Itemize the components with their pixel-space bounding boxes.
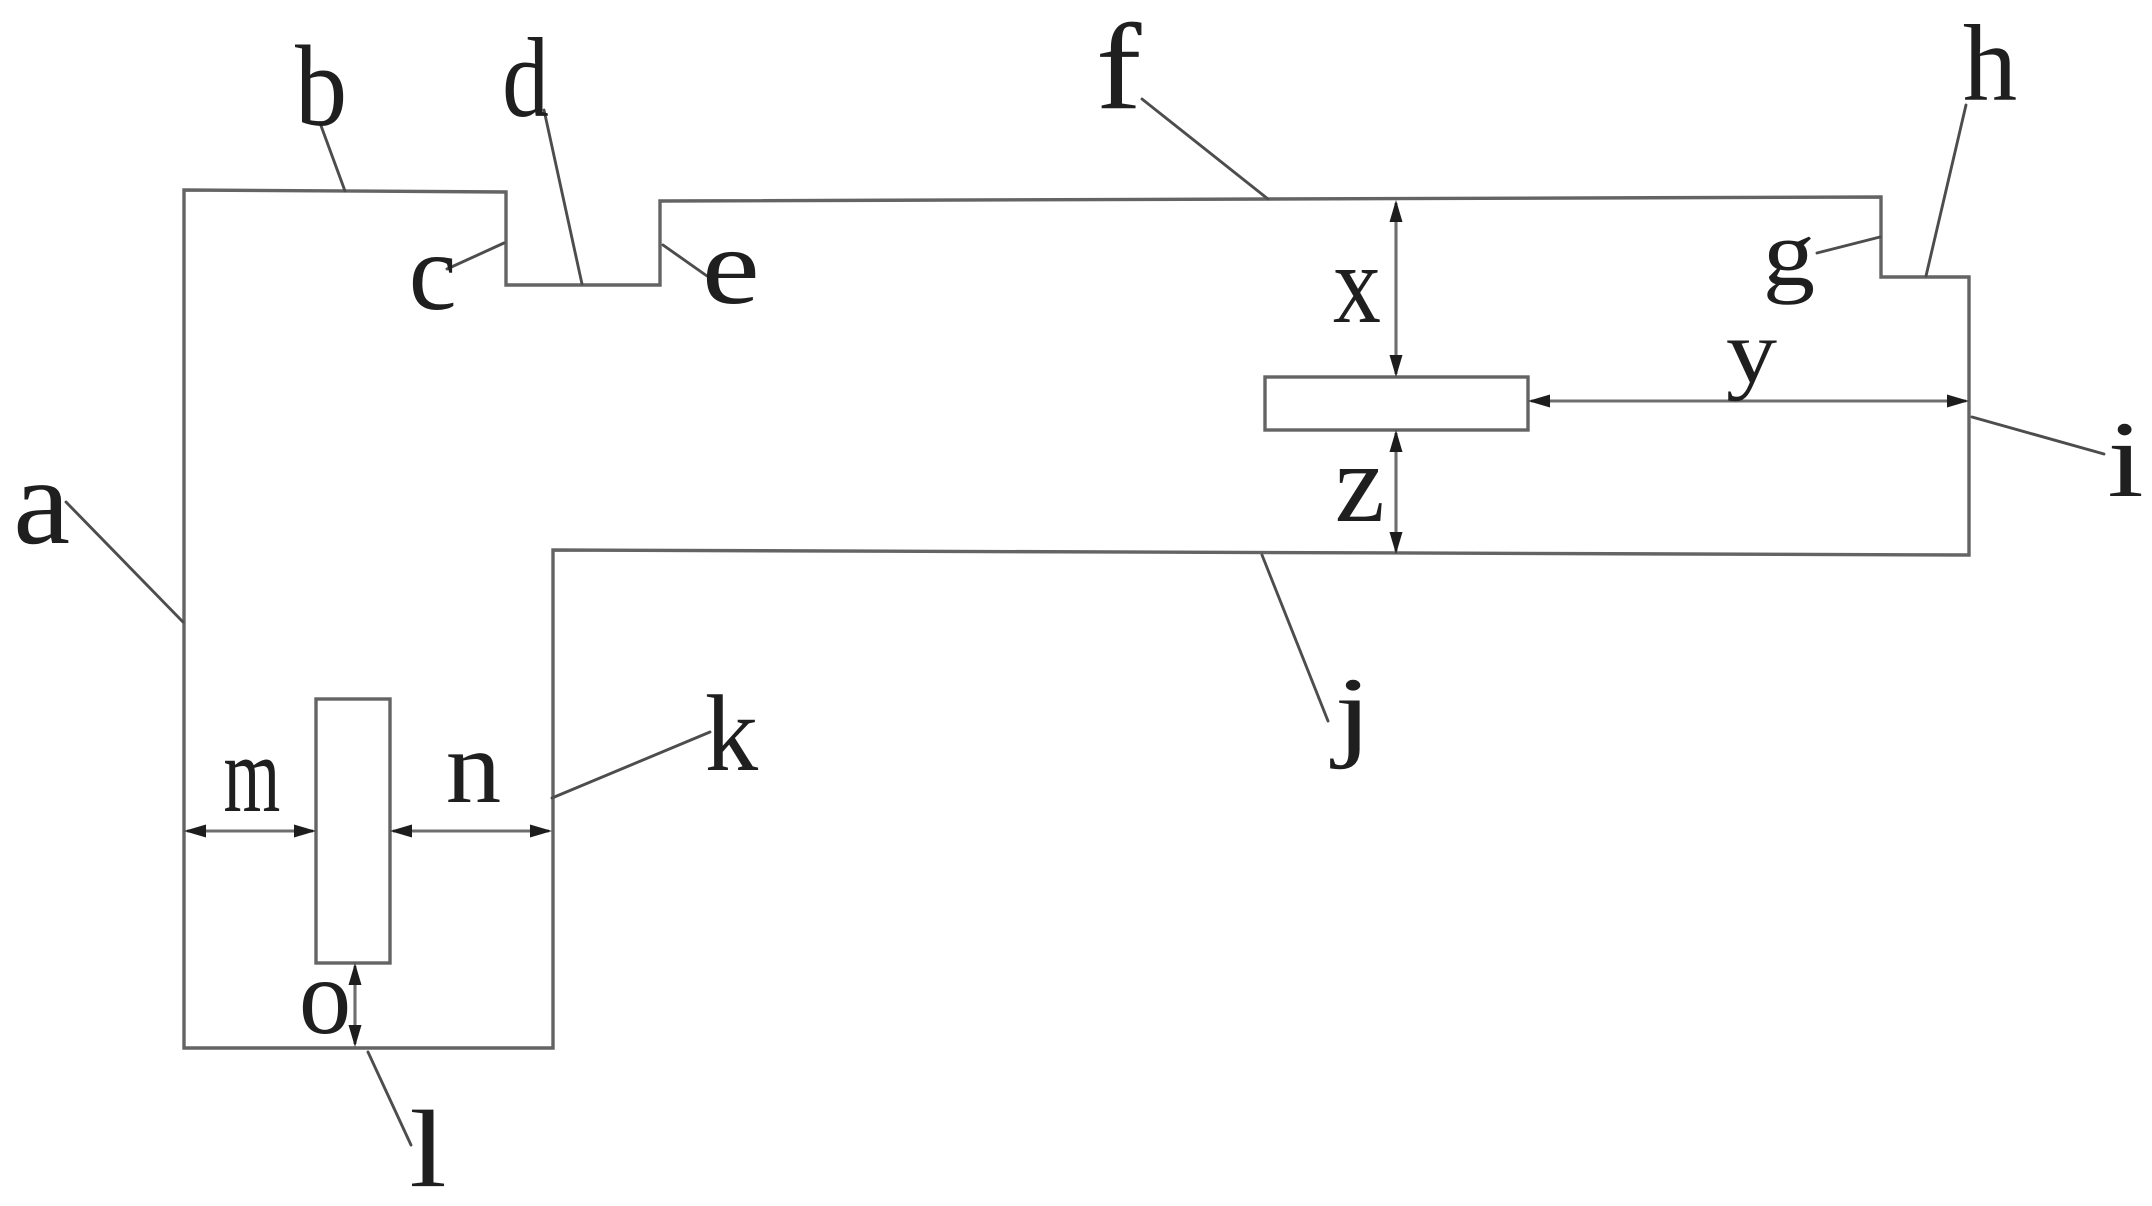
svg-text:f: f bbox=[1096, 0, 1142, 136]
svg-text:x: x bbox=[1333, 222, 1381, 347]
slot: vertical rectangle in lower block bbox=[316, 699, 390, 963]
arrowheads z dim bbox=[1390, 430, 1403, 452]
dim line x bbox=[1394, 203, 1397, 374]
svg-text:e: e bbox=[702, 206, 760, 326]
dim line y bbox=[1531, 399, 1966, 402]
leader b bbox=[320, 123, 345, 191]
arrowheads y dim bbox=[1528, 395, 1550, 408]
svg-text:h: h bbox=[1963, 4, 2017, 124]
svg-text:g: g bbox=[1763, 203, 1815, 305]
svg-text:b: b bbox=[295, 22, 347, 150]
leader e bbox=[663, 245, 707, 276]
svg-text:j: j bbox=[1330, 658, 1372, 771]
svg-text:n: n bbox=[446, 710, 501, 825]
arrowheads n dim bbox=[390, 825, 412, 838]
svg-text:m: m bbox=[224, 716, 281, 836]
svg-text:z: z bbox=[1335, 421, 1385, 546]
leader h bbox=[1926, 105, 1966, 276]
leader j bbox=[1262, 555, 1328, 721]
svg-text:k: k bbox=[705, 674, 758, 794]
arrowheads o dim bbox=[349, 963, 362, 985]
part outline: L-shaped body with top notch and right step bbox=[184, 190, 1969, 1048]
leader i bbox=[1972, 417, 2104, 454]
svg-text:a: a bbox=[13, 434, 70, 570]
leader c bbox=[447, 243, 504, 269]
svg-text:c: c bbox=[409, 211, 457, 333]
leader k bbox=[552, 732, 710, 798]
arrowheads x dim bbox=[1390, 200, 1403, 222]
dim line n bbox=[393, 829, 549, 832]
dim line m bbox=[187, 829, 313, 832]
leader g bbox=[1817, 237, 1880, 253]
svg-text:i: i bbox=[2107, 400, 2143, 521]
dim line z bbox=[1394, 433, 1397, 551]
leader a bbox=[66, 502, 183, 622]
dim line o bbox=[353, 966, 356, 1044]
svg-text:d: d bbox=[502, 17, 549, 141]
leader l bbox=[368, 1052, 411, 1145]
leader f bbox=[1142, 99, 1268, 199]
arrowheads m dim bbox=[184, 825, 206, 838]
slot: horizontal rectangle in upper bar bbox=[1265, 377, 1528, 430]
svg-text:y: y bbox=[1726, 302, 1777, 402]
svg-text:l: l bbox=[409, 1088, 446, 1206]
leader d bbox=[544, 110, 582, 284]
svg-text:o: o bbox=[299, 937, 351, 1057]
